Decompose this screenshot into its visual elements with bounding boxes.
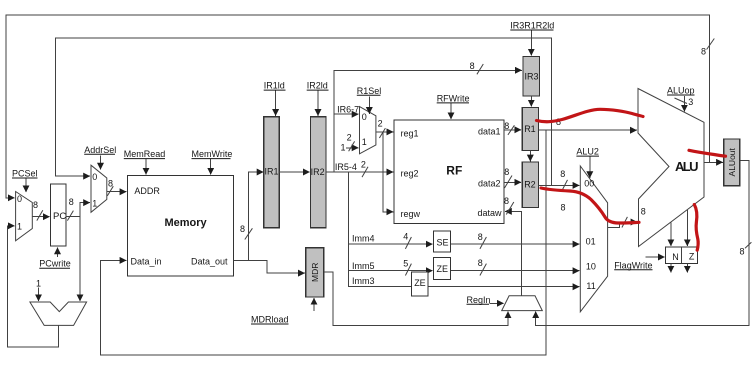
wire: constant 1 to R1Sel input 1 [346,147,359,149]
svg-text:MemRead: MemRead [124,149,166,159]
svg-text:ADDR: ADDR [134,186,160,196]
mux RegIn [502,296,543,311]
PCwrite arrow [57,248,59,257]
svg-text:RegIn: RegIn [467,295,491,305]
svg-text:PCwrite: PCwrite [39,259,71,269]
N flag output arrow [670,263,672,272]
svg-text:8: 8 [478,232,483,242]
wire: R2 feedback to AddrSel input 0 [56,38,552,185]
register R1 [522,108,538,151]
wire: ALU output to ALUout [704,161,723,163]
svg-text:IR3: IR3 [525,72,539,82]
svg-text:IR2: IR2 [311,167,325,177]
svg-text:ALU: ALU [675,159,699,174]
svg-text:IR6-7: IR6-7 [337,105,359,115]
AddrSel select arrow [100,156,102,170]
svg-text:reg1: reg1 [401,128,419,138]
wire: ALUout feedback to RegIn right input [536,161,749,326]
svg-text:2: 2 [347,133,352,143]
svg-text:Imm5: Imm5 [352,261,375,271]
ALU2 select arrow [589,157,591,179]
slash 8 on IR3 feed [477,64,483,74]
wire: RF data2 to R2 [504,181,521,183]
svg-text:8: 8 [478,258,483,268]
wire: SE output to ALU2 input 01 [450,243,579,245]
adder PC+1 [30,302,87,325]
wire: Data_out branch to MDR [249,260,305,273]
svg-text:data2: data2 [478,179,501,189]
slash 5 on Imm5 [405,264,411,276]
wire: R1 to R2 arrow [529,151,531,162]
red ink stroke from R2 down to ALU2 output [541,188,639,223]
svg-text:0: 0 [362,112,367,122]
register ALUout [724,139,740,186]
flags N Z box [666,247,698,263]
slash 8 on R2 output [562,180,568,192]
svg-text:3: 3 [688,97,693,107]
svg-text:Memory: Memory [165,217,208,229]
svg-text:ALUout: ALUout [727,147,737,176]
slash 2 on R1Sel output [379,128,385,138]
red ink stroke over R1 to ALU wire [537,109,644,121]
svg-text:IR5-4: IR5-4 [335,162,357,172]
svg-text:8: 8 [504,121,509,131]
box ZE [434,257,451,279]
svg-text:dataw: dataw [478,208,503,218]
IR1ld arrow [275,91,277,116]
wire: IR2 tap riser to IR3 feed [334,70,522,172]
wire: ALU Z flag arrow [686,210,688,246]
slash on PCSel output [37,210,43,220]
red ink stroke into ALUout [689,150,726,156]
svg-text:IR3R1R2ld: IR3R1R2ld [510,21,554,31]
slash 8 on ALU2 output [622,217,628,228]
mux R1Sel [360,107,376,154]
svg-text:PC: PC [53,211,66,222]
red ink stroke down ALU right corner to Z flag [694,205,698,251]
slash 8 on data1 [508,125,515,135]
wire: PC output to AddrSel input 1 [80,203,90,217]
wire: ALU N flag arrow [670,222,672,246]
svg-text:1: 1 [17,222,22,232]
svg-text:1: 1 [92,199,97,209]
box ZE2 [411,272,428,296]
MDRload arrow [313,298,315,311]
svg-text:10: 10 [586,261,596,271]
IR3R1R2ld arrow [530,31,532,56]
wire: R1Sel output to RF reg1 [376,131,393,133]
wire: ZE2 output to ALU2 input 11 [428,286,580,288]
wire: RF data1 to R1 [504,129,521,131]
svg-text:Imm4: Imm4 [352,234,375,244]
slash 8 on feedback wire at top right [707,39,715,50]
slash 8 on dataw [506,202,514,215]
svg-text:MemWrite: MemWrite [192,149,233,159]
wire: R2 output to ALU2 mux input 00 [539,184,580,186]
svg-text:ZE: ZE [414,278,426,288]
register MDR [306,248,324,297]
svg-text:8: 8 [33,200,38,210]
register PC [51,184,67,246]
wire: IR1 output to IR2 [279,171,310,173]
wire: IR2 output IR5-4 to RF reg2 [326,171,393,173]
svg-text:ALU2: ALU2 [576,147,599,157]
wire: MDR output to RegIn mux left input [324,272,508,325]
svg-text:8: 8 [470,61,475,71]
svg-text:8: 8 [504,196,509,206]
block Memory [127,176,233,277]
svg-text:PCSel: PCSel [12,169,38,179]
register IR3 [523,57,540,97]
svg-text:R1Sel: R1Sel [357,86,382,96]
slash 2 on R1Sel input 1 [349,141,355,151]
wire: ALU2 output to ALU bottom input [608,222,638,228]
svg-text:8: 8 [641,207,646,217]
wire: Memory Data_out to IR1 [234,172,264,260]
svg-text:2: 2 [378,119,383,129]
wire: PC output [66,216,80,218]
wire: AddrSel output to Memory ADDR [107,191,127,193]
wire: PC output to adder right input [79,217,81,302]
RFWrite arrow [450,103,452,119]
wire: IR3 to R1 arrow [530,96,532,107]
flags divider [680,247,682,263]
wire: PCSel output to PC [32,216,49,218]
svg-text:RFWrite: RFWrite [437,93,470,103]
wire: Imm5 to ZE [348,270,432,272]
svg-text:01: 01 [586,237,596,247]
svg-text:1: 1 [36,279,41,289]
svg-text:1: 1 [341,142,346,152]
wire: constant 1 to adder left input [38,288,40,302]
svg-text:5: 5 [403,259,408,269]
block RF [394,120,504,224]
wire: RegIn output to RF dataw [505,211,522,295]
wire: ALU result feedback to PCSel input 0 [6,15,710,198]
slash 8 on Data_out riser [245,228,253,239]
svg-text:RF: RF [446,163,462,177]
slash 2 on IR5-4 [362,167,368,177]
svg-text:0: 0 [17,194,22,204]
svg-text:8: 8 [701,47,706,57]
ALU shape [638,89,704,247]
MemWrite arrow [210,159,212,175]
svg-text:ZE: ZE [437,264,449,274]
svg-text:8: 8 [504,167,509,177]
PCSel select arrow [25,179,27,193]
svg-text:AddrSel: AddrSel [84,145,116,155]
Z flag output arrow [686,263,688,272]
svg-text:IR1ld: IR1ld [264,81,285,91]
svg-text:00: 00 [584,179,594,189]
mux AddrSel [91,165,107,212]
slash 4 on Imm4 [405,237,411,249]
svg-text:IR1: IR1 [265,167,279,177]
svg-text:FlagWrite: FlagWrite [614,260,652,270]
ALUop select arrow [683,96,685,112]
svg-text:MDR: MDR [310,263,320,282]
wire: ZE output to ALU2 input 10 [450,270,579,272]
RegIn select arrow [490,302,504,304]
wire: Imm tap riser to Imm3 / ZE2 [348,172,411,287]
IR2ld arrow [317,91,319,116]
svg-text:8: 8 [69,197,74,207]
svg-text:reg2: reg2 [401,168,419,178]
svg-text:Data_in: Data_in [131,257,162,267]
svg-text:MDRload: MDRload [251,315,289,325]
slash 8 on ALUout feedback [745,242,751,248]
svg-text:2: 2 [361,160,366,170]
MemRead arrow [145,159,147,175]
svg-text:1: 1 [362,137,367,147]
svg-text:N: N [672,252,679,262]
register R2 [522,162,538,208]
slash on PC output [67,211,73,221]
wire: Imm4 to SE [348,243,432,245]
svg-text:8: 8 [108,179,113,189]
svg-text:data1: data1 [478,127,501,137]
svg-text:8: 8 [740,246,745,256]
svg-text:4: 4 [403,232,408,242]
svg-text:SE: SE [437,238,449,248]
svg-text:R2: R2 [524,180,536,190]
mux ALU2 4to1 [580,166,607,312]
svg-text:Data_out: Data_out [191,257,228,267]
svg-text:regw: regw [401,209,421,219]
R1Sel select arrow [368,97,370,114]
slash on AddrSel output [107,186,113,196]
svg-text:Imm3: Imm3 [352,276,375,286]
box SE [434,231,451,252]
svg-text:0: 0 [92,172,97,182]
wire: R1 output to ALU top input [539,129,637,131]
slash 3 on ALUop [675,98,688,104]
slash 8 on ZE output [480,264,487,276]
slash 8 on SE output [480,237,487,249]
svg-text:IR2ld: IR2ld [307,81,328,91]
wire: IR6-7 tap to R1Sel input 0 [334,113,358,115]
wire: R1 to Memory Data_in feedback [101,130,547,355]
register IR2 [311,117,327,228]
svg-text:8: 8 [560,169,565,179]
svg-text:8: 8 [240,224,245,234]
wire: R1Sel output branch to RF regw [383,132,393,212]
svg-text:11: 11 [586,281,595,291]
svg-text:8: 8 [561,203,566,213]
register IR1 [264,117,279,228]
wire: adder output to PCSel input 1 [8,226,59,347]
svg-text:Z: Z [689,252,695,262]
slash 8 on data2 [505,176,513,189]
svg-text:R1: R1 [524,124,536,134]
mux PCSel [16,192,33,241]
svg-text:ALUop: ALUop [667,86,695,96]
FlagWrite arrow [646,256,665,258]
